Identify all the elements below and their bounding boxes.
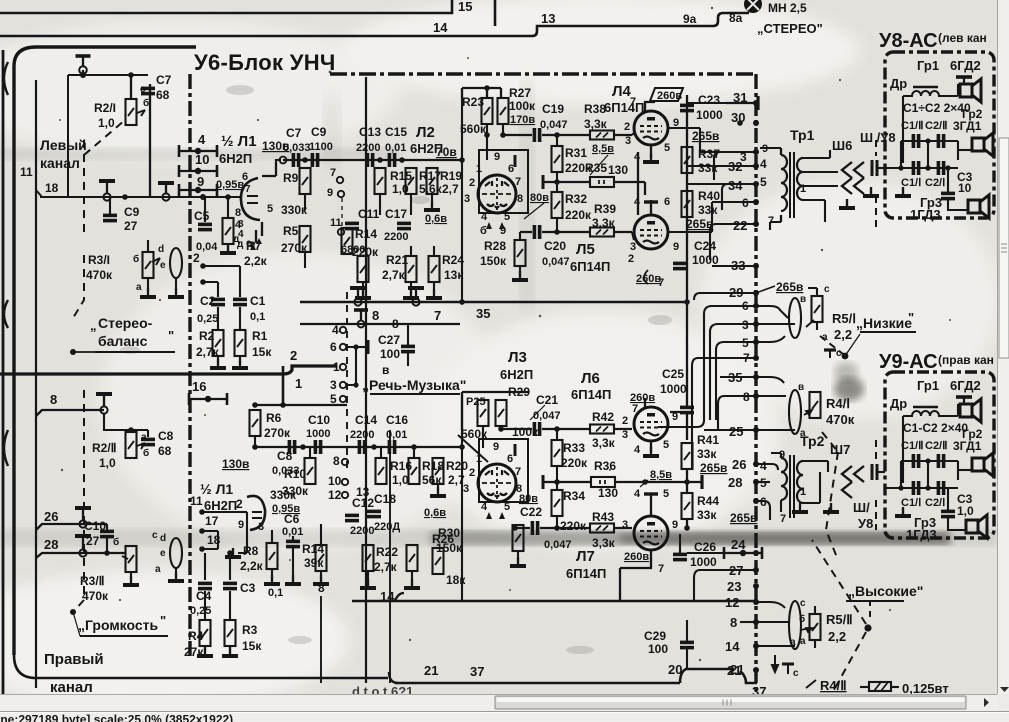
speaker Gr1 xyxy=(960,79,981,102)
svg-text:1100: 1100 xyxy=(309,141,333,153)
svg-text:330к: 330к xyxy=(282,484,309,498)
R16 1,0 lower xyxy=(376,458,387,484)
svg-text:Л3: Л3 xyxy=(508,349,527,366)
wire contact 25 y430 xyxy=(704,429,756,431)
svg-text:С8: С8 xyxy=(158,429,174,443)
tap on rail y324 xyxy=(354,310,368,320)
svg-text:2,2: 2,2 xyxy=(834,327,852,342)
svg-text:10: 10 xyxy=(958,181,972,195)
svg-text:С7: С7 xyxy=(286,126,302,140)
svg-text:б: б xyxy=(143,447,149,459)
svg-text:2,2к: 2,2к xyxy=(244,254,268,268)
upper sheet long line 14/13 with steps xyxy=(0,13,749,36)
svg-text:1,0: 1,0 xyxy=(957,504,974,518)
svg-text:4: 4 xyxy=(760,459,767,473)
svg-text:560к: 560к xyxy=(460,122,487,136)
svg-text:R2: R2 xyxy=(199,329,215,343)
svg-text:330к: 330к xyxy=(281,203,308,217)
dashed gang line of volume pot xyxy=(84,120,125,238)
svg-text:Л5: Л5 xyxy=(576,241,595,258)
speaker Gr3 xyxy=(968,195,989,218)
svg-text:Гр2: Гр2 xyxy=(962,427,983,441)
half tube L1 upper xyxy=(241,178,260,220)
corner curl at x390 bottom xyxy=(389,672,398,683)
svg-text:33к: 33к xyxy=(697,447,717,461)
R37 33k xyxy=(682,147,693,173)
svg-text:220к: 220к xyxy=(561,456,588,470)
svg-text:2,2к: 2,2к xyxy=(240,559,264,573)
svg-text:Тр2: Тр2 xyxy=(800,433,825,449)
svg-text:1000: 1000 xyxy=(696,108,723,122)
svg-text:5: 5 xyxy=(664,142,670,154)
svg-text:0,6в: 0,6в xyxy=(424,507,446,519)
svg-text:R5/Ⅱ: R5/Ⅱ xyxy=(826,612,853,627)
shielded jack oval xyxy=(170,248,182,278)
R1 resistor xyxy=(235,330,246,356)
svg-text:6П14П: 6П14П xyxy=(566,566,606,581)
svg-text:R10: R10 xyxy=(284,467,306,481)
inner box bottom y601 xyxy=(352,600,756,602)
svg-text:7: 7 xyxy=(515,466,521,478)
R18 56k lower xyxy=(409,458,420,484)
svg-text:С16: С16 xyxy=(386,413,408,427)
svg-text:С13: С13 xyxy=(359,125,381,139)
svg-text:баланс: баланс xyxy=(98,333,148,349)
svg-text:8: 8 xyxy=(333,454,340,468)
svg-text:3: 3 xyxy=(622,519,628,531)
svg-text:8: 8 xyxy=(392,317,399,331)
svg-text:с: с xyxy=(800,598,806,609)
svg-text:6: 6 xyxy=(507,453,513,465)
svg-text:С1/Ⅱ: С1/Ⅱ xyxy=(901,120,924,132)
svg-text:а: а xyxy=(141,432,147,443)
svg-text:14: 14 xyxy=(725,639,740,654)
dashed pot gang segment mid xyxy=(73,255,84,318)
grid wire into L4 xyxy=(632,132,635,135)
svg-text:265в: 265в xyxy=(730,511,757,525)
svg-text:100к: 100к xyxy=(509,99,536,113)
svg-text:220к: 220к xyxy=(565,208,592,222)
svg-text:„: „ xyxy=(90,318,97,333)
coupling wire y135 to C19 xyxy=(503,134,590,136)
svg-text:8: 8 xyxy=(318,581,325,595)
svg-text:У8-АС: У8-АС xyxy=(879,30,938,52)
svg-text:22: 22 xyxy=(733,218,747,233)
svg-text:6П14П: 6П14П xyxy=(570,259,610,274)
svg-text:Л7: Л7 xyxy=(576,548,595,565)
svg-text:3: 3 xyxy=(622,429,628,441)
main vertical rail x366 xyxy=(365,77,367,683)
svg-text:1: 1 xyxy=(800,183,806,195)
svg-text:канал: канал xyxy=(40,155,80,171)
chevrons to U9 xyxy=(842,466,864,482)
svg-text:с: с xyxy=(140,84,146,95)
svg-text:Тр1: Тр1 xyxy=(790,127,815,143)
dashed from R4/I down xyxy=(822,432,838,560)
svg-text:470к: 470к xyxy=(86,268,113,282)
svg-text:а: а xyxy=(790,637,796,648)
wire contact 8 y396 xyxy=(718,396,756,430)
svg-text:R2/I: R2/I xyxy=(94,101,116,115)
svg-text:4: 4 xyxy=(332,323,339,337)
right connector column contacts xyxy=(753,100,759,673)
svg-text:9: 9 xyxy=(673,241,679,253)
R6 270k xyxy=(255,404,347,406)
svg-text:15к: 15к xyxy=(242,639,262,653)
svg-text:ine:297189 byte] scale:25.0% (: ine:297189 byte] scale:25.0% (3852x1922) xyxy=(0,713,233,722)
svg-text:У9-АС: У9-АС xyxy=(879,351,938,373)
svg-text:Левый: Левый xyxy=(40,137,87,153)
input box left channel: wires xyxy=(40,75,205,197)
treble tone control (Vysokie) xyxy=(756,602,795,646)
svg-text:R32: R32 xyxy=(565,192,587,206)
R17 5,6k xyxy=(406,168,417,194)
svg-text:R37: R37 xyxy=(698,147,720,161)
svg-text:3: 3 xyxy=(463,483,469,495)
potentiometer R2/I xyxy=(126,99,137,125)
R3/II volume pot xyxy=(126,546,137,572)
svg-text:3,3к: 3,3к xyxy=(584,117,608,131)
svg-text:С10: С10 xyxy=(84,519,106,533)
svg-text:3,3к: 3,3к xyxy=(592,216,616,230)
choke coil xyxy=(903,91,958,96)
vertical scrollbar thumb xyxy=(999,138,1009,358)
svg-text:„Низкие: „Низкие xyxy=(856,315,912,331)
svg-text:0,95в: 0,95в xyxy=(216,179,244,191)
R9 330k xyxy=(300,168,311,194)
svg-text:270к: 270к xyxy=(264,426,291,440)
svg-text:R35: R35 xyxy=(585,161,607,175)
svg-text:15к: 15к xyxy=(252,345,272,359)
viewer bottom horizontal scrollbar track xyxy=(0,694,997,711)
svg-text:18: 18 xyxy=(45,181,59,195)
R26 18k xyxy=(433,548,444,574)
svg-text:R5: R5 xyxy=(283,224,299,238)
svg-text:33к: 33к xyxy=(698,203,718,217)
svg-text:2,7к: 2,7к xyxy=(374,560,398,574)
R34 220k xyxy=(552,490,563,516)
R19 2,7 xyxy=(427,168,438,194)
svg-text:У6-Блок УНЧ: У6-Блок УНЧ xyxy=(194,50,336,75)
svg-text:220к: 220к xyxy=(560,519,587,533)
output tube L5 xyxy=(634,215,668,249)
leader 265v upper xyxy=(756,286,775,293)
svg-text:С15: С15 xyxy=(385,125,407,139)
R24 13k xyxy=(429,256,440,282)
svg-text:6ГД2: 6ГД2 xyxy=(950,58,981,73)
shielded jack oval lower xyxy=(170,538,182,568)
svg-text:9а: 9а xyxy=(683,12,697,26)
svg-text:Л6: Л6 xyxy=(581,370,600,387)
svg-text:27: 27 xyxy=(86,534,100,548)
tube L2 upper triode xyxy=(479,150,528,213)
grounds under chevrons xyxy=(839,199,855,208)
U6 dash-dot left inner boundary (channel separator) xyxy=(188,74,191,660)
svg-text:С23: С23 xyxy=(698,93,720,107)
svg-text:С24: С24 xyxy=(694,239,716,253)
volume label xyxy=(70,609,76,615)
svg-text:1,0: 1,0 xyxy=(99,456,116,470)
junction node at 131,75 xyxy=(128,72,134,78)
svg-text:С22: С22 xyxy=(520,505,542,519)
svg-text:2: 2 xyxy=(290,348,297,363)
svg-text:R38: R38 xyxy=(584,102,606,116)
output tube L6 xyxy=(634,407,668,441)
svg-text:12: 12 xyxy=(725,595,739,610)
svg-text:6: 6 xyxy=(242,171,248,183)
svg-text:100: 100 xyxy=(648,642,668,656)
R10 330k xyxy=(305,458,316,484)
svg-text:а: а xyxy=(800,636,806,647)
svg-text:R33: R33 xyxy=(563,441,585,455)
svg-text:б: б xyxy=(133,253,139,265)
pot body oval xyxy=(789,298,801,338)
svg-text:28: 28 xyxy=(728,475,742,490)
svg-text:4: 4 xyxy=(481,501,488,513)
svg-text:220Д: 220Д xyxy=(374,521,400,533)
260v note lower flag xyxy=(644,270,648,284)
R2/II pot xyxy=(128,427,134,433)
staircase wires from connector contacts to tone controls xyxy=(658,152,778,622)
svg-text:„Речь-Музыка": „Речь-Музыка" xyxy=(362,377,466,393)
svg-text:2: 2 xyxy=(622,415,628,427)
svg-text:Р25: Р25 xyxy=(466,396,486,408)
svg-text:R41: R41 xyxy=(697,433,719,447)
svg-text:5: 5 xyxy=(663,439,669,451)
svg-text:Др: Др xyxy=(890,396,907,411)
tap symbols above terminals xyxy=(99,181,174,193)
svg-text:12: 12 xyxy=(328,488,342,502)
svg-text:9: 9 xyxy=(493,441,499,453)
C13 2200 xyxy=(367,153,372,167)
svg-text:9: 9 xyxy=(672,519,678,531)
svg-text:Гр1: Гр1 xyxy=(917,378,939,393)
R40 33k xyxy=(682,191,693,217)
R3/I volume pot xyxy=(143,252,154,278)
svg-text:14: 14 xyxy=(433,20,448,35)
svg-text:7: 7 xyxy=(780,513,786,525)
rail y324 with taps xyxy=(300,323,460,325)
svg-text:68: 68 xyxy=(158,444,172,458)
svg-text:100: 100 xyxy=(380,347,400,361)
svg-text:R19: R19 xyxy=(440,169,462,183)
small tap c above pot xyxy=(824,350,836,358)
svg-text:½ Л1: ½ Л1 xyxy=(221,133,257,150)
svg-text:2,7: 2,7 xyxy=(442,182,459,196)
lower coupling y528 C22 R43 xyxy=(515,527,590,529)
svg-text:4: 4 xyxy=(481,211,488,223)
upper sheet line 15-box xyxy=(0,0,495,26)
R? twin lower xyxy=(407,545,418,571)
ground-antenna tap at top xyxy=(76,56,91,74)
svg-text:34: 34 xyxy=(728,178,743,193)
svg-text:У8: У8 xyxy=(858,516,873,531)
svg-text:С2: С2 xyxy=(200,294,216,308)
svg-text:R3: R3 xyxy=(242,623,258,637)
svg-text:2,2: 2,2 xyxy=(828,629,846,644)
svg-text:130: 130 xyxy=(598,486,618,500)
svg-text:0,1: 0,1 xyxy=(268,587,283,599)
svg-text:8: 8 xyxy=(372,308,379,323)
svg-text:8: 8 xyxy=(730,615,737,630)
svg-text:0,01: 0,01 xyxy=(385,142,406,154)
horizontal scrollbar thumb xyxy=(495,696,966,709)
svg-text:„Высокие": „Высокие" xyxy=(848,583,923,599)
svg-text:2: 2 xyxy=(469,177,475,189)
R33 220k xyxy=(552,440,563,466)
wire from contact 22 left xyxy=(710,224,756,260)
svg-text:е: е xyxy=(246,238,252,249)
svg-text:6Н2П: 6Н2П xyxy=(204,498,237,513)
svg-text:R21: R21 xyxy=(386,253,408,267)
R31 220k xyxy=(552,146,563,172)
grounds under Tr2 xyxy=(792,503,808,512)
lower contacts to Tr2 xyxy=(756,464,778,470)
svg-text:130в: 130в xyxy=(222,457,249,471)
svg-text:0,1: 0,1 xyxy=(250,311,265,323)
R25 560k xyxy=(478,400,489,426)
svg-text:0,25: 0,25 xyxy=(190,605,211,617)
channel divider bold line xyxy=(0,366,337,374)
wire from jack 17/18 into lower triode grid xyxy=(240,511,247,513)
svg-text:R28: R28 xyxy=(484,239,506,253)
svg-text:R22: R22 xyxy=(376,545,398,559)
svg-text:4: 4 xyxy=(634,196,641,208)
svg-text:R34: R34 xyxy=(563,489,585,503)
svg-text:С2/Ⅰ: С2/Ⅰ xyxy=(925,177,945,189)
C15 0,01 xyxy=(389,153,394,167)
svg-text:16: 16 xyxy=(192,379,206,394)
svg-text:R39: R39 xyxy=(594,202,616,216)
svg-text:150к: 150к xyxy=(436,541,463,555)
svg-text:20: 20 xyxy=(668,662,682,677)
svg-text:Гр2: Гр2 xyxy=(962,107,983,121)
svg-text:С20: С20 xyxy=(544,239,566,253)
svg-text:R36: R36 xyxy=(594,459,616,473)
svg-text:Ш6: Ш6 xyxy=(832,138,852,153)
svg-text:25: 25 xyxy=(729,424,743,439)
C3 electrolytic xyxy=(941,193,955,198)
svg-text:с: с xyxy=(836,348,842,359)
svg-text:д: д xyxy=(233,234,240,245)
svg-text:С29: С29 xyxy=(644,629,666,643)
svg-text:С26: С26 xyxy=(694,540,716,554)
svg-text:R9: R9 xyxy=(283,171,299,185)
svg-text:7: 7 xyxy=(632,403,638,415)
svg-text:Ш7: Ш7 xyxy=(830,442,850,457)
R7 resistor xyxy=(223,218,234,244)
svg-text:б: б xyxy=(799,613,805,625)
svg-text:3: 3 xyxy=(258,521,264,533)
speaker Gr2 xyxy=(972,133,993,156)
svg-text:": " xyxy=(160,613,166,628)
connector column dash-dot (right edge of U6) xyxy=(754,74,757,692)
svg-text:0,047: 0,047 xyxy=(544,539,572,551)
svg-text:470к: 470к xyxy=(826,412,855,427)
svg-text:1000: 1000 xyxy=(306,428,330,440)
svg-text:Гр1: Гр1 xyxy=(917,58,939,73)
svg-text:1000: 1000 xyxy=(690,555,717,569)
svg-text:R30: R30 xyxy=(438,526,460,540)
R2 resistor xyxy=(213,330,224,356)
svg-text:2,7к: 2,7к xyxy=(196,345,220,359)
svg-text:С21: С21 xyxy=(536,393,558,407)
svg-text:2: 2 xyxy=(236,497,243,511)
R20 2,7 lower xyxy=(433,458,444,484)
output tube L7 xyxy=(634,516,668,550)
svg-text:d: d xyxy=(160,533,166,544)
treble pickup pot R4/I xyxy=(756,377,795,430)
R5/I resistor xyxy=(812,296,823,322)
svg-text:5: 5 xyxy=(504,501,510,513)
svg-text:а: а xyxy=(155,564,161,575)
contact bar node 1 on mid wire xyxy=(700,475,703,489)
svg-text:4: 4 xyxy=(634,488,641,500)
svg-text:6: 6 xyxy=(330,340,337,354)
svg-text:470к: 470к xyxy=(82,589,109,603)
svg-text:5: 5 xyxy=(267,203,273,215)
svg-text:R3/I: R3/I xyxy=(88,253,110,267)
output tube L4 xyxy=(634,111,668,145)
R38 3,3k xyxy=(590,131,614,140)
svg-text:С4: С4 xyxy=(196,589,212,603)
svg-text:Л2: Л2 xyxy=(416,124,435,141)
svg-text:R42: R42 xyxy=(592,410,614,424)
svg-text:Стерео-: Стерео- xyxy=(98,315,153,331)
svg-text:4: 4 xyxy=(198,132,206,147)
svg-text:9: 9 xyxy=(197,174,204,189)
lower preamp feed xyxy=(462,392,528,430)
svg-text:С3: С3 xyxy=(240,581,256,595)
vertical rail x321 lower xyxy=(320,596,322,683)
svg-text:С1: С1 xyxy=(250,294,266,308)
svg-text:26: 26 xyxy=(44,509,58,524)
svg-text:С12: С12 xyxy=(352,496,374,510)
svg-text:С9: С9 xyxy=(311,125,327,139)
svg-text:R3/Ⅱ: R3/Ⅱ xyxy=(80,574,105,588)
vertical scrollbar at right xyxy=(997,0,1009,694)
svg-text:6П14П: 6П14П xyxy=(604,100,644,115)
R15 1,0 xyxy=(375,168,386,194)
svg-text:„СТЕРЕО": „СТЕРЕО" xyxy=(757,21,823,36)
svg-text:11: 11 xyxy=(20,165,33,179)
svg-text:1000: 1000 xyxy=(660,382,687,396)
svg-text:в: в xyxy=(798,382,804,393)
svg-text:24: 24 xyxy=(731,537,746,552)
R29 100k xyxy=(496,400,507,426)
svg-text:R23: R23 xyxy=(462,95,484,109)
svg-text:17: 17 xyxy=(205,514,219,528)
svg-text:8: 8 xyxy=(517,193,523,205)
svg-text:R1: R1 xyxy=(252,329,268,343)
svg-text:7: 7 xyxy=(630,96,636,108)
svg-text:R43: R43 xyxy=(592,510,614,524)
svg-text:1,0: 1,0 xyxy=(98,116,115,130)
anode chain verticals xyxy=(638,152,645,215)
R resistor with cap 6800 xyxy=(358,256,369,282)
svg-text:С18: С18 xyxy=(374,492,396,506)
svg-text:Л4: Л4 xyxy=(612,83,632,100)
svg-text:МН 2,5: МН 2,5 xyxy=(768,1,807,15)
tap symbols on rail y302 xyxy=(350,288,366,298)
svg-text:R20: R20 xyxy=(446,459,468,473)
svg-text:": " xyxy=(168,328,174,343)
svg-text:2: 2 xyxy=(624,121,630,133)
svg-text:с: с xyxy=(824,284,830,295)
svg-text:Др: Др xyxy=(890,76,907,91)
svg-text:1ГД3: 1ГД3 xyxy=(906,527,937,542)
C8 68 capacitor xyxy=(147,430,149,437)
